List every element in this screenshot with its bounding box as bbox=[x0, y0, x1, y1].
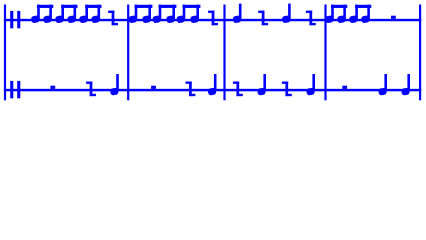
quarter note B6 (bottom m4 beat 4) bbox=[401, 74, 410, 96]
quarter rest (top m3 beat 2) bbox=[258, 11, 268, 26]
eighth note T12 (top m2) bbox=[190, 5, 199, 24]
beam T1-T2 bbox=[37, 5, 53, 8]
half rest (bottom m1 beats 1-2) bbox=[50, 86, 55, 89]
eighth note T9 (top m2) bbox=[152, 5, 161, 24]
eighth note T3 (top m1) bbox=[55, 5, 64, 24]
barline 3 (full system height) bbox=[223, 5, 225, 101]
eighth note T7 (top m2) bbox=[128, 5, 137, 24]
eighth note T18 (top m4) bbox=[361, 5, 370, 24]
quarter rest (bottom m2 beat 3) bbox=[186, 82, 196, 97]
quarter note T13 (top m3 beat 1) bbox=[232, 4, 241, 24]
beam T15-T16 bbox=[331, 5, 347, 8]
quarter note B3 (bottom m3 beat 2) bbox=[257, 74, 266, 96]
eighth note T17 (top m4) bbox=[349, 5, 358, 24]
quarter note T14 (top m3 beat 3) bbox=[282, 4, 291, 24]
staff line (bottom rhythm staff) bbox=[4, 89, 421, 91]
barline 4 (full system height) bbox=[324, 5, 326, 101]
eighth note T4 (top m1) bbox=[67, 5, 76, 24]
quarter note B2 (bottom m2 beat 4) bbox=[207, 74, 216, 96]
quarter rest (bottom m3 beat 3) bbox=[282, 82, 292, 97]
eighth note T15 (top m4) bbox=[325, 5, 334, 24]
quarter rest (bottom m1 beat 3) bbox=[86, 82, 96, 97]
eighth note T8 (top m2) bbox=[142, 5, 151, 24]
quarter rest (top m3 beat 4) bbox=[306, 11, 316, 26]
quarter rest (bottom m3 beat 1) bbox=[233, 82, 243, 97]
quarter note B4 (bottom m3 beat 4) bbox=[306, 74, 315, 96]
beam T5-T6 bbox=[85, 5, 101, 8]
quarter note B5 (bottom m4 beat 3) bbox=[378, 74, 387, 96]
eighth note T6 (top m1) bbox=[91, 5, 100, 24]
staff line (top rhythm staff) bbox=[4, 19, 421, 21]
beam T7-T8 bbox=[135, 5, 153, 8]
eighth note T5 (top m1) bbox=[79, 5, 88, 24]
eighth note T10 (top m2) bbox=[166, 5, 175, 24]
eighth note T2 (top m1) bbox=[43, 5, 52, 24]
barline 1 (full system height) bbox=[4, 5, 6, 101]
percussion clef (top staff) bbox=[10, 11, 20, 28]
beam T17-T18 bbox=[355, 5, 371, 8]
percussion clef (bottom staff) bbox=[10, 81, 20, 98]
half rest (bottom m4 beats 1-2) bbox=[342, 86, 347, 89]
quarter rest (top m1 beat 4) bbox=[108, 11, 118, 26]
half rest (top m4 beats 3-4) bbox=[391, 16, 396, 19]
eighth note T16 (top m4) bbox=[337, 5, 346, 24]
quarter rest (top m2 beat 4) bbox=[208, 11, 218, 26]
barline 2 (full system height) bbox=[127, 5, 129, 101]
quarter note B1 (bottom m1 beat 4) bbox=[110, 74, 119, 96]
beam T9-T10 bbox=[159, 5, 177, 8]
eighth note T1 (top m1) bbox=[31, 5, 40, 24]
eighth note T11 (top m2) bbox=[176, 5, 185, 24]
beam T11-T12 bbox=[183, 5, 201, 8]
barline 5 (full system height) bbox=[419, 5, 421, 101]
half rest (bottom m2 beats 1-2) bbox=[151, 86, 156, 89]
beam T3-T4 bbox=[61, 5, 77, 8]
